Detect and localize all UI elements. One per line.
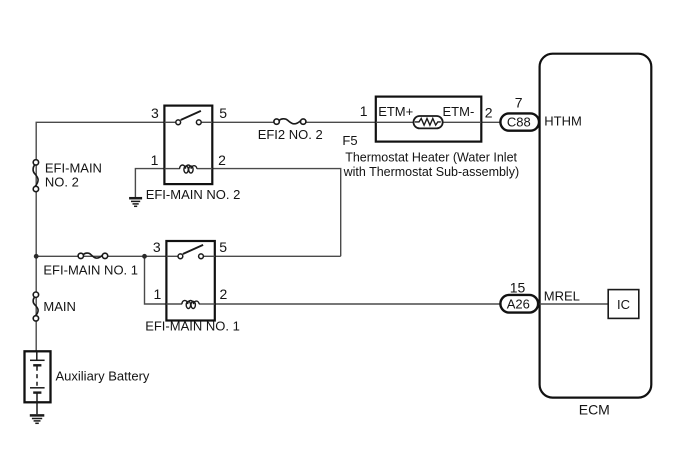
svg-text:3: 3 [151,105,159,121]
svg-text:2: 2 [218,152,226,168]
svg-text:15: 15 [510,279,526,295]
svg-text:ETM-: ETM- [443,104,475,119]
svg-text:1: 1 [151,152,159,168]
svg-text:EFI-MAIN NO. 1: EFI-MAIN NO. 1 [43,263,138,278]
svg-text:MREL: MREL [544,288,580,303]
svg-text:MAIN: MAIN [43,299,76,314]
svg-text:Thermostat Heater (Water Inlet: Thermostat Heater (Water Inlet [345,151,517,165]
svg-text:3: 3 [153,239,161,255]
svg-text:2: 2 [485,105,493,121]
svg-text:EFI-MAIN: EFI-MAIN [45,160,102,175]
svg-text:7: 7 [515,94,523,110]
svg-text:ECM: ECM [579,402,610,418]
svg-text:5: 5 [219,239,227,255]
svg-text:Auxiliary Battery: Auxiliary Battery [56,369,150,384]
svg-text:1: 1 [154,286,162,302]
svg-text:IC: IC [617,297,630,312]
svg-text:ETM+: ETM+ [378,104,413,119]
svg-text:EFI2 NO. 2: EFI2 NO. 2 [258,127,323,142]
svg-text:F5: F5 [342,133,357,148]
svg-text:A26: A26 [507,297,530,312]
svg-text:5: 5 [219,105,227,121]
svg-text:with Thermostat Sub-assembly): with Thermostat Sub-assembly) [343,165,520,179]
svg-text:C88: C88 [507,114,531,129]
svg-text:NO. 2: NO. 2 [45,175,79,190]
svg-text:1: 1 [360,103,368,119]
svg-text:HTHM: HTHM [544,114,582,129]
svg-text:EFI-MAIN NO. 1: EFI-MAIN NO. 1 [145,319,240,334]
svg-text:2: 2 [220,286,228,302]
svg-text:EFI-MAIN NO. 2: EFI-MAIN NO. 2 [146,187,241,202]
